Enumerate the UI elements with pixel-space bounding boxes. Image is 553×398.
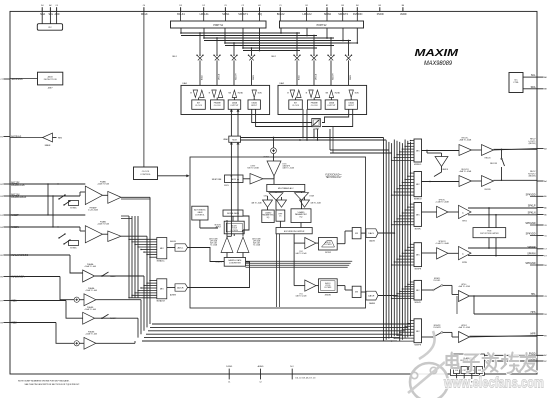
svg-text:+14dB TO -30dB: +14dB TO -30dB: [435, 202, 449, 204]
wire MIXSPL input tap 3: [405, 209, 414, 211]
DAC L input mux: [352, 228, 361, 239]
svg-text:D3: D3: [179, 5, 181, 7]
wire MIXSPR input tap 3: [405, 249, 414, 251]
ALC output gain triangles: [269, 193, 283, 201]
wire MIXSPR input tap 7: [394, 261, 414, 263]
svg-text:DV1G2: DV1G2: [325, 252, 331, 254]
svg-text:SPKRN: SPKRN: [527, 253, 536, 256]
wire mux to DACL: [361, 232, 366, 234]
wire ADC R mixer input 1: [150, 280, 157, 282]
pin AGND (bottom): [260, 369, 262, 380]
DAC R input mux: [352, 286, 361, 297]
wire MIXRECL input tap 5: [400, 151, 414, 153]
wire input select vertical x=132.0: [131, 216, 133, 298]
svg-text:MODE1: MODE1: [215, 225, 221, 227]
wire MIXRECR input tap 6: [397, 188, 414, 190]
wire output bus vertical 11: [410, 142, 412, 336]
wire top pin to PORT S2: [326, 11, 328, 21]
wire analog bus line 6: [142, 340, 397, 342]
clock control block: [134, 167, 158, 180]
svg-text:SPKVLR: SPKVLR: [438, 241, 446, 243]
wire MIXHPL input tap 3: [405, 286, 414, 288]
svg-text:SDIN1: SDIN1: [222, 13, 230, 16]
svg-text:QFS 6dB: QFS 6dB: [210, 241, 218, 243]
wire MIXHPR input tap 2: [408, 322, 414, 324]
wire PORT S1 drop at x=225: [224, 28, 226, 43]
pin OUT (right): [537, 180, 544, 182]
svg-text:C6: C6: [544, 225, 546, 227]
receiver right amplifier: [482, 176, 494, 187]
wire analog bus line 3: [148, 330, 405, 332]
wire MIXHPL input tap 8: [392, 297, 414, 299]
wire MIXSPR input tap 1: [411, 243, 415, 245]
wire MIXHPR input tap 1: [411, 319, 415, 321]
microphone 2 PGA: [108, 231, 121, 242]
wire PORT S1 drop at x=259.5: [259, 28, 261, 51]
audio voice filters block (DAC R): [319, 279, 338, 293]
wire ADC R mixer input 4: [141, 287, 157, 289]
pin SPKRN (right): [537, 255, 544, 257]
wire output bus vertical 5: [393, 140, 395, 337]
wire crossbar bus line 5: [225, 42, 351, 44]
svg-text:D4: D4: [41, 5, 43, 7]
wire crossbar bus line 8: [243, 50, 300, 52]
wire PORT S2 drop at x=357.3: [356, 28, 358, 43]
I2C interface block (top left): [41, 11, 43, 23]
svg-text:FILTERS: FILTERS: [324, 287, 332, 289]
playback gain DV2 triangle: [305, 238, 316, 249]
svg-text:CONVERTER: CONVERTER: [229, 262, 241, 264]
receiver output mode switch: [501, 149, 503, 158]
svg-text:B1: B1: [305, 5, 307, 7]
svg-text:OUTPUT: OUTPUT: [230, 105, 239, 107]
speaker left class D amplifier: [459, 205, 472, 218]
pin JACKSNS (left): [3, 78, 10, 80]
wire top pin to PORT S2: [356, 11, 358, 21]
wire AV triangles to noise gate: [226, 221, 228, 236]
wire MIXHPL input tap 5: [400, 290, 414, 292]
pin INA1/JACKMIC (left): [3, 254, 10, 256]
speaker right volume PGA: [422, 252, 437, 254]
svg-text:PDM: PDM: [487, 231, 491, 233]
audio filters block (DAC L): [319, 238, 338, 251]
wire MIXSPR input tap 6: [397, 258, 414, 260]
headphone right amplifier: [459, 332, 470, 343]
microphone 1 PGA: [108, 191, 121, 203]
wire output bus vertical 8: [401, 143, 403, 340]
svg-text:SDOUT2: SDOUT2: [338, 13, 348, 16]
svg-text:IRQ: IRQ: [258, 13, 262, 16]
svg-text:HPVLR: HPVLR: [461, 325, 467, 327]
svg-text:CLOCK: CLOCK: [311, 105, 319, 107]
svg-text:(BD2M): (BD2M): [529, 143, 536, 145]
mic input select switches: [59, 195, 65, 199]
svg-text:0dB TO -15dB: 0dB TO -15dB: [296, 296, 308, 298]
bus feed wires from DAC outputs: [378, 232, 394, 234]
DAI2 block: [278, 85, 367, 114]
wire crossbar bus line 6: [225, 45, 334, 47]
output mixer MIXHPL: [414, 280, 422, 300]
wire clock control output: [158, 175, 189, 177]
wire MIXSPL input tap 5: [400, 215, 414, 217]
SPKGND pin stub wires: [530, 224, 537, 226]
svg-text:VOICE: VOICE: [325, 285, 331, 287]
pin HPR (right): [537, 335, 544, 337]
sample rate converter block: [224, 258, 245, 267]
svg-text:INPUT: INPUT: [251, 105, 258, 107]
svg-text:MIXSPR: MIXSPR: [415, 269, 422, 271]
pin HPS (right): [537, 313, 544, 315]
wire analog bus line 5: [144, 337, 400, 339]
wire ADC L mixer input 4: [138, 246, 157, 248]
wire analog bus line 1: [152, 323, 411, 325]
svg-text:C8: C8: [544, 296, 546, 298]
pin BCLK2 (top): [279, 7, 281, 11]
svg-text:B2: B2: [326, 5, 328, 7]
svg-text:+8dB TO -62dB: +8dB TO -62dB: [459, 140, 472, 142]
svg-text:SDOUT: SDOUT: [236, 73, 238, 80]
multiband ALC block: [267, 184, 305, 191]
svg-text:TO -15dB: TO -15dB: [253, 245, 261, 247]
svg-text:DETECTION: DETECTION: [44, 79, 57, 81]
wire SRC output 3: [246, 264, 350, 266]
svg-text:RECVLR: RECVLR: [461, 169, 469, 171]
svg-text:DIGMICCLK: DIGMICCLK: [11, 184, 25, 187]
charge pump capacitor pin C1N: [454, 367, 460, 374]
svg-text:REG: REG: [58, 138, 63, 140]
excursion limiter block: [276, 228, 312, 234]
svg-text:SPKGND: SPKGND: [525, 222, 535, 225]
wire MIXRECL input tap 2: [408, 142, 414, 144]
headphone left amplifier: [459, 291, 470, 302]
mux LRA/B block: [229, 136, 241, 142]
svg-text:TO -15dB: TO -15dB: [210, 245, 218, 247]
svg-text:SPKLN: SPKLN: [528, 212, 536, 215]
noise gate block: [223, 210, 243, 216]
switch DAI1 BCLK select: [199, 33, 201, 55]
DAC R: [366, 291, 378, 300]
svg-text:D6: D6: [544, 265, 546, 267]
wire speaker left outputs: [468, 207, 537, 209]
svg-text:RECV: RECV: [530, 171, 536, 173]
pin N.C. (bottom): [291, 369, 293, 380]
svg-text:HPS: HPS: [531, 311, 536, 314]
speaker left volume PGA: [422, 211, 437, 213]
wire output bus vertical 9: [404, 140, 406, 339]
wire SRC output 2: [246, 262, 351, 264]
receiver left amplifier: [482, 145, 494, 156]
svg-text:MUX: MUX: [231, 179, 236, 181]
svg-text:0dB/QFS: 0dB/QFS: [283, 166, 291, 168]
svg-text:INPUT: INPUT: [348, 105, 355, 107]
svg-text:EXCURSION LIMITER: EXCURSION LIMITER: [284, 231, 305, 233]
svg-text:C1: C1: [279, 5, 281, 7]
svg-text:SDIN2: SDIN2: [324, 13, 332, 16]
wire filters to mux: [337, 243, 345, 245]
wire MIXSPR input tap 4: [402, 252, 414, 254]
svg-text:HPVLL: HPVLL: [461, 284, 466, 286]
DAI1 DATA OUTPUT sub-block: [228, 100, 241, 109]
svg-text:E8: E8: [0, 322, 2, 324]
svg-text:CLOCK: CLOCK: [292, 105, 300, 107]
wire crossbar bus line 2: [181, 35, 317, 37]
pin SPKVDD (right): [537, 195, 544, 197]
pin PVDD (right): [537, 354, 544, 356]
svg-text:FILTERS: FILTERS: [324, 244, 332, 246]
INBDIFF switch: [101, 317, 103, 319]
svg-text:+24dB TO -6dB: +24dB TO -6dB: [84, 309, 97, 311]
playback gain DV1 triangle: [305, 280, 316, 291]
microphone 1 preamplifier: [10, 183, 85, 185]
wire ADCL to sample rate converter: [188, 248, 225, 262]
svg-text:SEE THE PIN DESCRIPTION SECTIO: SEE THE PIN DESCRIPTION SECTION FOR TQFN…: [25, 384, 81, 386]
wire output bus vertical 2: [385, 141, 387, 340]
ADC R: [175, 284, 188, 291]
charge pump capacitor pin C2N: [469, 367, 475, 374]
DAI1 BIT CLOCK sub-block: [192, 100, 206, 109]
wire DAI2 data output drops: [302, 109, 304, 137]
output mixer MIXSPR: [414, 243, 422, 267]
wire PORT S2 drop at x=281: [280, 28, 282, 33]
DAI2 BIT CLOCK sub-block: [289, 100, 303, 109]
wire analog bus line 4: [146, 333, 402, 335]
line input B difference summer: [10, 322, 56, 324]
wire PORT S2 drop at x=327: [326, 28, 328, 38]
wire mux input horizontals to bus: [241, 137, 384, 139]
PDM distortion limiter block: [473, 228, 506, 238]
svg-text:RECV: RECV: [530, 139, 536, 141]
wire receiver right output: [494, 179, 538, 181]
wire top pin to PORT S1: [242, 11, 244, 21]
digital mic wires to flexsound: [121, 198, 151, 200]
receiver right PGA: [422, 181, 460, 183]
svg-text:CLOCK: CLOCK: [214, 105, 222, 107]
svg-text:MAXIM: MAXIM: [415, 48, 459, 59]
wire MIXRECR input tap 4: [402, 182, 414, 184]
svg-text:TECHNOLOGY: TECHNOLOGY: [325, 177, 342, 179]
wire output bus vertical 6: [396, 141, 398, 335]
microphone 2 preamplifier: [10, 214, 85, 216]
wire crossbar bus line 3: [204, 37, 334, 39]
svg-text:RECVLL: RECVLL: [462, 138, 469, 140]
pin MIC1N (left): [3, 195, 10, 197]
wire MIXHPR input tap 6: [397, 334, 414, 336]
wire crossbar bus line 1: [181, 32, 300, 34]
svg-text:DV2R: DV2R: [310, 196, 315, 198]
svg-text:C4: C4: [55, 5, 57, 7]
charge pump block: [450, 354, 484, 375]
wire PORT S1 drop at x=243: [242, 28, 244, 48]
svg-text:BCLK1: BCLK1: [177, 13, 185, 16]
svg-text:+20dB TO 0dB: +20dB TO 0dB: [97, 184, 110, 186]
wire ADC R mixer input 3: [144, 285, 157, 287]
wire analog bus line 2: [150, 326, 408, 328]
svg-text:BCLK2: BCLK2: [277, 13, 285, 16]
wire MIXSPL input tap 7: [394, 221, 414, 223]
svg-text:AVDD: AVDD: [400, 13, 407, 16]
svg-text:SDOUT: SDOUT: [333, 73, 335, 80]
pin INB2 (left): [3, 322, 10, 324]
sidetone mux block: [225, 175, 244, 183]
svg-text:SIDETONE: SIDETONE: [212, 179, 222, 181]
watermark Chinese characters: [447, 353, 537, 374]
line input B1 PGA: [10, 300, 66, 302]
output mixer MIXSPL: [414, 203, 422, 227]
pin SPKVDD (right): [537, 235, 544, 237]
wire MIXHPL input tap 4: [402, 288, 414, 290]
wire input select vertical x=129.0: [128, 216, 130, 298]
svg-text:PORT S1: PORT S1: [213, 25, 223, 27]
svg-text:RECRN: RECRN: [484, 189, 491, 191]
ADC to flexsound wires: [189, 247, 191, 249]
wire DAI2 data input to sample rate converter: [322, 109, 349, 122]
wire charge pump PVDD: [484, 354, 537, 356]
svg-text:SCL: SCL: [531, 74, 536, 77]
svg-text:D2: D2: [202, 5, 204, 7]
pin MIC2P (left): [3, 214, 10, 216]
svg-text:E3: E3: [0, 196, 2, 198]
svg-text:MIXHPL: MIXHPL: [434, 278, 440, 280]
pin MCLK (top): [143, 7, 145, 11]
svg-text:www.elecfans.com: www.elecfans.com: [443, 375, 544, 392]
svg-text:JDET: JDET: [48, 87, 54, 89]
input bus feed wires: [121, 196, 150, 198]
pin SDIN1 (top): [224, 7, 226, 11]
svg-text:0dB TO -15dB: 0dB TO -15dB: [296, 253, 308, 255]
wire MIXRECL input tap 4: [402, 148, 414, 150]
wire PORT S2 drop at x=307: [306, 28, 308, 36]
svg-text:QFS 6dB: QFS 6dB: [253, 241, 261, 243]
svg-text:B7: B7: [544, 361, 546, 363]
svg-text:MODE1: MODE1: [325, 295, 331, 297]
DAC L: [366, 229, 378, 238]
svg-text:BCLK: BCLK: [202, 74, 204, 80]
line input B2 PGA: [84, 337, 96, 349]
svg-text:CONTROL: CONTROL: [195, 214, 206, 216]
svg-text:MUX: MUX: [232, 139, 237, 141]
wire MIXHPR input tap 5: [400, 331, 414, 333]
svg-text:C1: C1: [228, 382, 230, 384]
wire headphone right output: [470, 336, 538, 338]
svg-text:SPKVDD: SPKVDD: [526, 233, 536, 236]
record path vertical wires to DAI mux: [230, 142, 232, 236]
wire MIXSPR input tap 5: [400, 255, 414, 257]
svg-text:SEL1: SEL1: [172, 56, 177, 58]
switch DAI2 SDIN select: [348, 41, 350, 56]
svg-text:D7: D7: [544, 255, 546, 257]
wire MIXHPR input tap 8: [392, 340, 414, 342]
DAI2 DATA OUTPUT sub-block: [325, 100, 338, 109]
wire crossbar bus line 7: [243, 47, 317, 49]
wire SCL: [523, 76, 537, 78]
pin SDA (right): [537, 88, 544, 90]
switch DAI2 LRCLK select: [313, 36, 315, 56]
wire PORT S2 drop at x=343: [342, 28, 344, 41]
DAI1 FRAME CLOCK sub-block: [211, 100, 225, 109]
wire ADC L mixer input 6: [144, 251, 157, 253]
svg-text:SPKLP: SPKLP: [528, 205, 536, 208]
wire MIXSPL input tap 1: [411, 203, 415, 205]
wire MIXRECL input tap 1: [411, 140, 415, 142]
line input A difference summer: [10, 276, 60, 278]
I2C control block (right): [509, 73, 523, 93]
output mixer MIXRECR: [414, 172, 422, 197]
switch DAI2 BCLK select: [296, 33, 298, 55]
svg-text:SDIN: SDIN: [350, 75, 352, 80]
svg-text:MIXHPR: MIXHPR: [415, 345, 422, 347]
FlexSound technology block: [190, 157, 366, 308]
wire top pin to PORT S2: [279, 11, 281, 21]
wire MIXRECR input tap 8: [392, 194, 414, 196]
wire ADC L mixer input 2: [132, 241, 157, 243]
svg-text:C3: C3: [224, 5, 226, 7]
switch DAI2 SDOUT select: [330, 38, 332, 55]
wire top pin to PORT S1: [203, 11, 205, 21]
pin SDA (top): [41, 7, 43, 11]
svg-text:C7: C7: [0, 79, 2, 81]
svg-text:D6, C7, D8, D6, D7, C3: D6, C7, D8, D6, D7, C3: [296, 377, 316, 379]
svg-text:SDA: SDA: [40, 13, 45, 16]
svg-text:B4: B4: [356, 5, 358, 7]
svg-text:HPL: HPL: [531, 293, 536, 296]
svg-text:DV1: DV1: [299, 294, 302, 296]
svg-text:E1: E1: [0, 136, 2, 138]
wire MIXSPL input tap 2: [408, 206, 414, 208]
DAI1 block: [181, 85, 270, 114]
wire ADC R mixer input 5: [138, 289, 157, 291]
wire DAI1 data input to sample rate converter: [252, 109, 312, 122]
wire MIXSPL input tap 8: [392, 224, 414, 226]
wire input select vertical x=138.0: [137, 216, 139, 298]
svg-text:HPR: HPR: [530, 333, 535, 336]
pin SDOUT1 (top): [242, 7, 244, 11]
svg-text:DVDD: DVDD: [377, 13, 384, 16]
pin INB1 (left): [3, 300, 10, 302]
svg-text:C2: C2: [241, 5, 243, 7]
svg-text:I2C: I2C: [48, 27, 52, 29]
svg-text:DIGMICDATA: DIGMICDATA: [11, 196, 26, 199]
svg-text:LINMOD: LINMOD: [442, 169, 449, 171]
pin SDOUT2 (top): [342, 7, 344, 11]
wire top pin to PORT S1: [224, 11, 226, 21]
pin PGND (right): [537, 360, 544, 362]
svg-text:SDIN: SDIN: [253, 75, 255, 80]
pin MICBIAS (left): [3, 136, 10, 138]
wire MIXHPL input tap 6: [397, 293, 414, 295]
wire MIXRECR input tap 7: [394, 191, 414, 193]
svg-text:SCL: SCL: [48, 13, 53, 16]
svg-text:SDOUT1: SDOUT1: [238, 13, 248, 16]
svg-text:SPKGND: SPKGND: [525, 262, 535, 265]
wire ADC L mixer input 1: [129, 238, 157, 240]
wire receiver left output: [494, 149, 538, 151]
highpass filter block: [276, 210, 285, 221]
jack detection block: [10, 78, 38, 80]
svg-text:B6: B6: [402, 5, 404, 7]
pin SPKGND (right): [537, 224, 544, 226]
wire headphone left output: [470, 295, 538, 297]
wire output bus vertical 7: [399, 142, 401, 341]
wire ADC R mixer input 2: [147, 282, 157, 284]
svg-text:DVDDIO: DVDDIO: [353, 13, 362, 16]
svg-text:PORT S2: PORT S2: [317, 25, 327, 27]
svg-text:LRCLK: LRCLK: [316, 73, 318, 80]
PORT S1 block: [171, 21, 267, 28]
pin SPKRP (right): [537, 248, 544, 250]
wire ADC L mixer input 7: [147, 254, 157, 256]
svg-text:MIXRECL: MIXRECL: [414, 164, 422, 166]
svg-text:SPLN: SPLN: [462, 221, 467, 223]
